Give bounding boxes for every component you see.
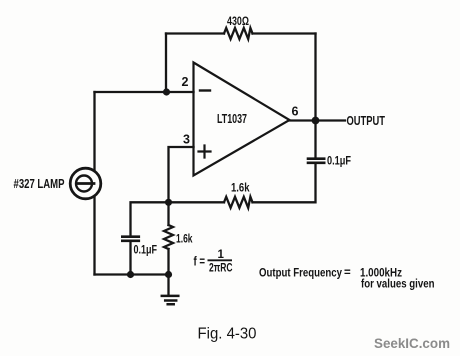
lamp DS1 inner filament circle (76, 176, 92, 192)
wire: lamp top lead (93, 92, 95, 171)
node: junction pin2/feedback (163, 88, 170, 95)
op-amp U1 triangle (194, 63, 290, 176)
capacitor C1 0.1uF plates (122, 237, 139, 241)
node: R3/C1/R2/pin3 junction (165, 199, 172, 206)
wire: top feedback left segment (166, 32, 224, 34)
resistor R1 430 ohm zigzag (224, 28, 253, 39)
wire: ground stub (167, 275, 169, 296)
resistor R3 bottom lead (167, 249, 169, 275)
svg-text:2πRC: 2πRC (209, 263, 233, 275)
op-amp U1 plus sign (199, 146, 211, 158)
wire: capacitor C2 bottom down and corner left (253, 164, 316, 203)
resistor R3 1.6k vertical top lead (167, 202, 169, 225)
node: C1 bottom junction (127, 271, 134, 278)
svg-text:=: = (344, 267, 351, 279)
svg-text:430Ω: 430Ω (227, 16, 249, 28)
svg-text:for values given: for values given (361, 279, 435, 291)
formula: fraction bar (208, 259, 233, 261)
op-amp U1 minus sign (200, 89, 210, 91)
wire: top feedback right segment (253, 32, 316, 34)
ground symbol (162, 296, 179, 304)
resistor R2 1.6k horizontal zigzag (224, 197, 253, 208)
svg-text:1: 1 (218, 249, 225, 261)
svg-text:0.1μF: 0.1μF (134, 245, 158, 257)
wire: lamp bottom lead (93, 196, 95, 275)
svg-text:LT1037: LT1037 (217, 111, 247, 126)
svg-text:6: 6 (292, 105, 299, 119)
svg-text:1.6k: 1.6k (176, 234, 193, 246)
lamp DS1 outer circle (70, 168, 101, 199)
wire: pin 2 horizontal from lamp branch to op-amp (95, 91, 194, 93)
wire: node to capacitor C1 branch horizontal (131, 202, 169, 235)
wire: output from apex to label (290, 119, 346, 121)
svg-text:3: 3 (183, 133, 190, 147)
lamp DS1 filament bar (77, 182, 94, 185)
wire: pin 3 stub and vertical down (169, 147, 194, 202)
svg-text:Output Frequency: Output Frequency (259, 268, 343, 280)
wire: left feedback vertical to pin 2 node (165, 34, 167, 93)
wire: capacitor C1 bottom lead (129, 242, 131, 275)
svg-text:1.6k: 1.6k (231, 183, 250, 195)
svg-text:#327 LAMP: #327 LAMP (14, 177, 65, 191)
svg-text:0.1μF: 0.1μF (327, 156, 351, 168)
svg-text:1.000kHz: 1.000kHz (360, 267, 402, 279)
svg-text:Fig. 4-30: Fig. 4-30 (198, 326, 257, 343)
svg-text:OUTPUT: OUTPUT (347, 113, 386, 128)
node: ground junction (165, 271, 172, 278)
wire: bottom horizontal from lamp to ground node (95, 273, 169, 275)
node: output junction (312, 117, 320, 125)
capacitor C2 0.1uF plates (308, 159, 324, 163)
svg-text:f =: f = (194, 254, 206, 268)
wire: right vertical output node to capacitor C2 (314, 121, 316, 158)
svg-text:2: 2 (182, 75, 189, 89)
svg-text:SeekIC.com: SeekIC.com (374, 336, 450, 351)
resistor R3 1.6k vertical zigzag (164, 225, 173, 249)
wire: right vertical from top wire to output node (314, 34, 316, 121)
wire: R2 left lead to node (169, 201, 225, 203)
